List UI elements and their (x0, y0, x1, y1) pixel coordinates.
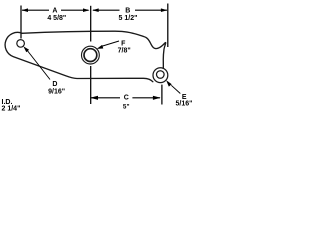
dimension A line left segment (22, 9, 49, 11)
svg-text:9/16": 9/16" (48, 88, 65, 95)
dimension B line right segment (135, 9, 167, 11)
part top edge from cap to right break (22, 31, 166, 68)
leader line for D (27, 50, 51, 80)
leader line for F (101, 41, 119, 47)
svg-text:5": 5" (123, 104, 130, 111)
hole E (157, 71, 165, 79)
dimension A left arrowhead (22, 8, 28, 12)
leader line for E (171, 85, 180, 93)
svg-text:7/8": 7/8" (118, 48, 131, 55)
dimension C line left segment (91, 97, 120, 99)
svg-text:A: A (52, 8, 57, 15)
extension line right end (167, 4, 169, 48)
svg-text:2 1/4": 2 1/4" (2, 106, 21, 113)
dimension A right arrowhead (83, 8, 90, 12)
leader arrowhead for F (97, 45, 104, 49)
svg-text:B: B (125, 8, 130, 15)
svg-text:F: F (121, 41, 126, 48)
dimension A line right segment (61, 9, 89, 11)
centerline of hole F (upper segment) (90, 6, 92, 42)
dimension B left arrowhead (92, 8, 98, 12)
centerline of hole F (lower segment) (90, 66, 92, 104)
svg-text:5/16": 5/16" (176, 101, 193, 108)
leader arrowhead for D (23, 46, 29, 52)
dimension C left arrowhead (90, 96, 98, 100)
dimension B line left segment (93, 9, 120, 11)
boss around hole E (153, 68, 168, 83)
hole F outer circle (82, 46, 100, 64)
dimension C line right segment (132, 97, 160, 99)
dimension C right arrowhead (153, 96, 161, 100)
dimension B right arrowhead (161, 8, 167, 12)
svg-text:D: D (52, 81, 57, 88)
extension line hole E centerline (161, 85, 163, 105)
leader arrowhead for E (166, 80, 172, 87)
hole F inner circle (84, 49, 97, 62)
extension line left (hole D centerline) (20, 6, 22, 39)
svg-text:5 1/2": 5 1/2" (119, 15, 138, 22)
svg-text:C: C (124, 95, 129, 102)
hole D (17, 40, 25, 48)
part outline: left cap, top edge, wavy break line (5, 32, 153, 81)
svg-text:4 5/8": 4 5/8" (47, 15, 66, 22)
